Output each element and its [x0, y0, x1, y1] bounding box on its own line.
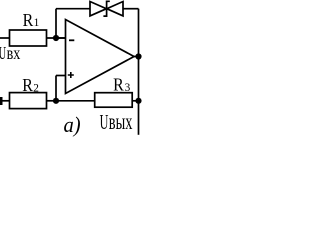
wire R3 to rail	[132, 100, 138, 102]
svg-text:а): а)	[64, 112, 81, 137]
label R2	[22, 75, 39, 95]
input terminal	[0, 97, 3, 105]
wire node B to R3	[56, 100, 95, 102]
wire right rail	[138, 9, 140, 135]
label Uvyx	[100, 110, 133, 135]
resistor R1	[10, 30, 47, 46]
wire inverting input	[56, 37, 66, 39]
svg-text:1: 1	[34, 17, 40, 29]
node A junction	[53, 35, 59, 41]
wire R1 to inverting node	[47, 37, 66, 39]
wire op-amp output	[134, 56, 139, 58]
wire feedback top right	[123, 8, 139, 10]
svg-text:U: U	[0, 44, 7, 63]
label Uvx	[0, 43, 20, 63]
wire feedback top left	[56, 8, 90, 10]
wire noninverting input	[56, 75, 66, 77]
node C junction	[135, 53, 141, 59]
op-amp U1	[66, 20, 135, 94]
svg-text:вх: вх	[7, 43, 21, 63]
svg-text:R: R	[22, 75, 33, 95]
node B junction	[53, 98, 59, 104]
wire terminal to R2	[0, 100, 10, 102]
zener VD right triangle	[107, 2, 123, 16]
svg-text:R: R	[113, 75, 124, 95]
wire noninverting down	[55, 76, 57, 101]
svg-text:вых: вых	[109, 110, 133, 135]
wire feedback left vertical	[55, 9, 57, 38]
svg-text:R: R	[23, 10, 34, 30]
node D junction	[135, 98, 141, 104]
plus input sign	[68, 72, 74, 78]
minus input sign	[69, 39, 74, 41]
zener VD left triangle	[90, 2, 106, 16]
label R1	[23, 10, 40, 30]
zener VD center bar	[103, 1, 109, 16]
label R3	[113, 75, 131, 95]
svg-text:3: 3	[125, 82, 131, 94]
resistor R3	[95, 93, 133, 108]
svg-text:2: 2	[33, 82, 39, 94]
wire R2 to node B	[47, 100, 57, 102]
svg-text:U: U	[100, 111, 109, 134]
resistor R2	[10, 93, 47, 109]
wire input to R1	[0, 37, 10, 39]
